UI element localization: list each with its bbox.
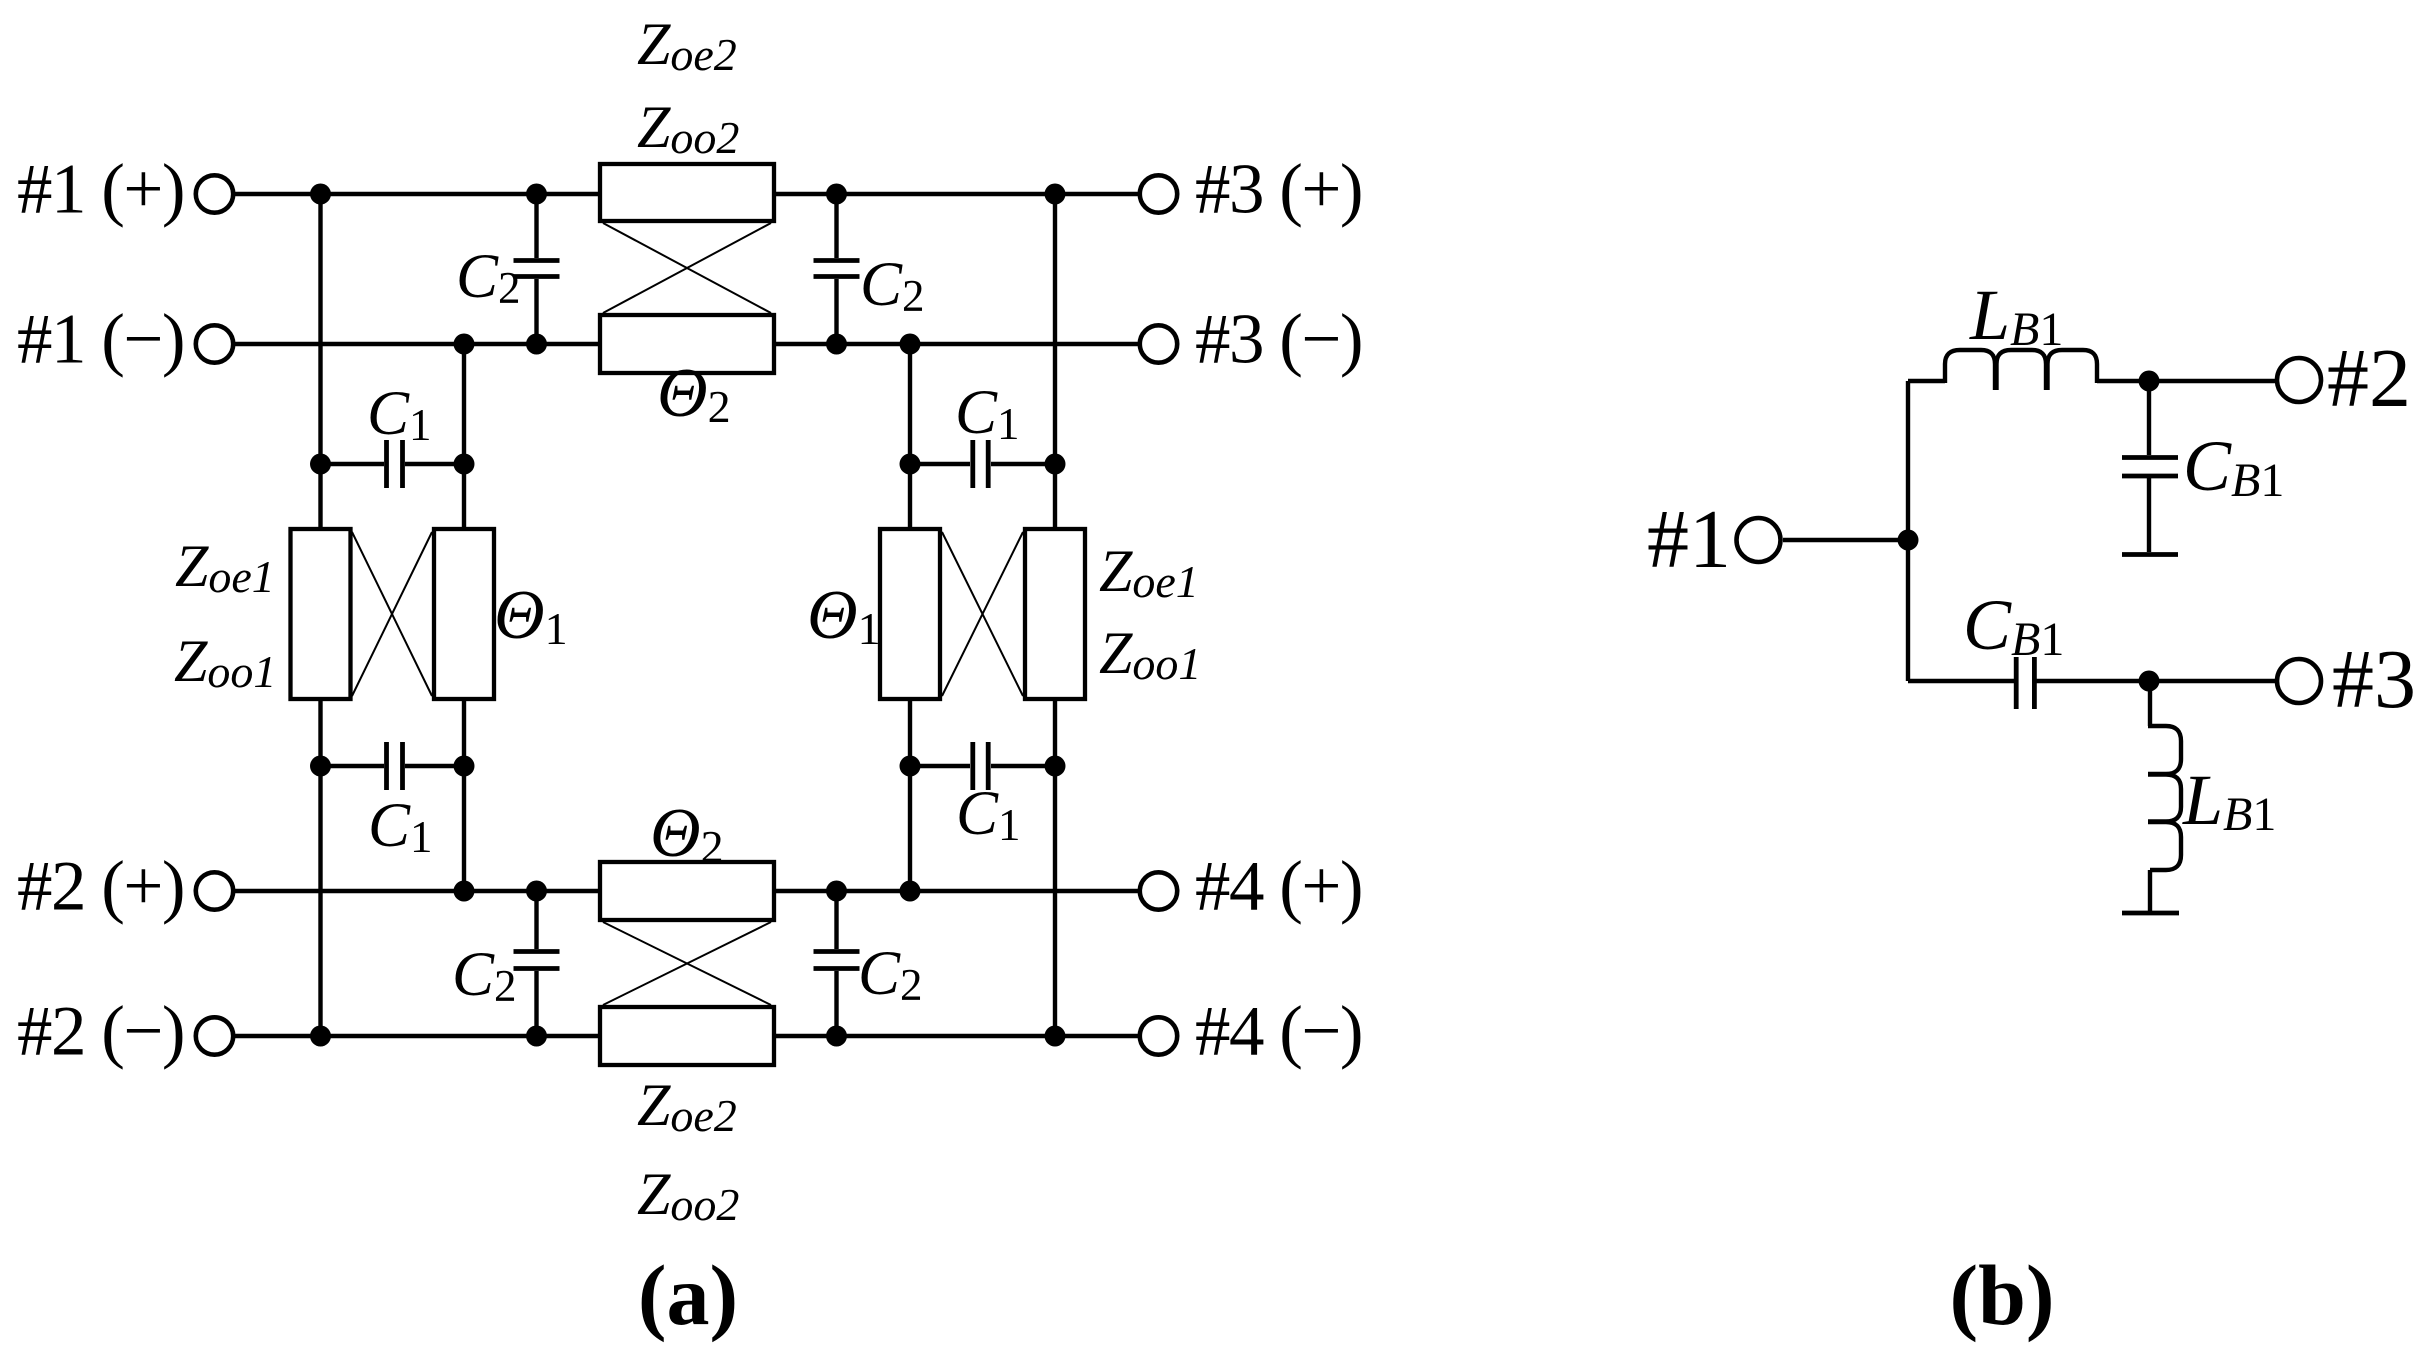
- port #3 terminal circle (b): [2277, 659, 2321, 703]
- wire left outer bus lower: [318, 699, 322, 1036]
- svg-text:#3 (+): #3 (+): [1195, 151, 1362, 229]
- wire left inner vertical upper: [462, 344, 466, 529]
- capacitor C2 top-right: [814, 194, 860, 344]
- capacitor C1 bottom-left: [321, 742, 465, 790]
- wire right inner vertical upper: [908, 344, 912, 529]
- wire left outer bus upper: [318, 194, 322, 529]
- port #1 (+) terminal circle: [196, 175, 233, 212]
- wire inductor to ground (b): [2148, 870, 2152, 911]
- capacitor C1 top-right: [910, 440, 1055, 488]
- capacitor C1 top-left: [321, 440, 465, 488]
- svg-text:#3: #3: [2332, 633, 2416, 726]
- wire right outer bus upper: [1053, 194, 1057, 529]
- wire rail #1(-) left: [235, 342, 600, 346]
- svg-text:#4 (−): #4 (−): [1195, 993, 1362, 1071]
- junction dots row y=891: [454, 881, 921, 902]
- svg-text:#1: #1: [1647, 493, 1731, 586]
- wire rail #2(-) left: [235, 1034, 600, 1038]
- junction dots row y=464: [310, 454, 1066, 475]
- node dot bottom branch (b): [2139, 671, 2160, 692]
- svg-text:(a): (a): [638, 1247, 738, 1343]
- capacitor C2 top-left: [514, 194, 560, 344]
- wire right outer bus lower: [1053, 699, 1057, 1036]
- svg-text:#2 (+): #2 (+): [17, 848, 184, 926]
- wire bottom branch left (b): [1908, 679, 2014, 683]
- wire top branch left (b): [1908, 379, 1945, 383]
- port #4 (+) terminal circle: [1140, 872, 1177, 909]
- port #3 (+) terminal circle: [1140, 175, 1177, 212]
- svg-text:#1 (+): #1 (+): [17, 151, 184, 229]
- port #2 (+) terminal circle: [196, 872, 233, 909]
- wire to vertical inductor (b): [2148, 681, 2152, 726]
- svg-text:#2 (−): #2 (−): [17, 993, 184, 1071]
- junction dots row y=344: [454, 334, 921, 355]
- ground bar top (b): [2122, 552, 2178, 557]
- wire rail #4(+) right: [774, 889, 1138, 893]
- svg-text:(b): (b): [1949, 1247, 2054, 1343]
- wire rail #3(-) right: [774, 342, 1138, 346]
- capacitor CB1 series (b): [2016, 657, 2034, 709]
- coupled line pair left (Zoe1/Zoo1): [291, 529, 495, 699]
- junction dots row y=194: [310, 184, 1066, 205]
- svg-text:#3 (−): #3 (−): [1195, 301, 1362, 379]
- wire top branch right (b): [2097, 379, 2275, 383]
- coupled line pair right (Zoe1/Zoo1): [880, 529, 1085, 699]
- junction dots row y=1036: [310, 1026, 1066, 1047]
- port #2 (-) terminal circle: [196, 1017, 233, 1054]
- port #3 (-) terminal circle: [1140, 325, 1177, 362]
- wire left inner vertical lower: [462, 699, 466, 891]
- wire port #1 to node (b): [1783, 538, 1908, 542]
- junction dots row y=766: [310, 756, 1066, 777]
- wire vertical trunk (b): [1906, 381, 1910, 681]
- svg-text:#1 (−): #1 (−): [17, 301, 184, 379]
- inductor LB1 top: [1945, 350, 2097, 390]
- node dot top branch (b): [2139, 371, 2160, 392]
- wire rail #2(+) left: [235, 889, 600, 893]
- port #4 (-) terminal circle: [1140, 1017, 1177, 1054]
- ground bar bottom (b): [2122, 911, 2179, 916]
- wire rail #4(-) right: [774, 1034, 1138, 1038]
- wire rail #3(+) right: [774, 192, 1138, 196]
- wire bottom branch right (b): [2036, 679, 2275, 683]
- node junction dot (b): [1898, 530, 1919, 551]
- svg-text:#2: #2: [2327, 332, 2411, 425]
- capacitor C2 bottom-right: [814, 891, 860, 1036]
- coupled line pair top (Zoe2/Zoo2): [600, 164, 774, 373]
- capacitor C2 bottom-left: [514, 891, 560, 1036]
- port #1 terminal circle (b): [1737, 518, 1781, 562]
- inductor LB1 vertical (b): [2148, 726, 2181, 870]
- port #1 (-) terminal circle: [196, 325, 233, 362]
- wire right inner vertical lower: [908, 699, 912, 891]
- capacitor CB1 shunt (b): [2122, 381, 2178, 552]
- capacitor C1 bottom-right: [910, 742, 1055, 790]
- wire rail #1(+) left: [235, 192, 600, 196]
- coupled line pair bottom (Zoe2/Zoo2): [600, 862, 774, 1065]
- svg-text:#4 (+): #4 (+): [1195, 848, 1362, 926]
- port #2 terminal circle (b): [2277, 358, 2321, 402]
